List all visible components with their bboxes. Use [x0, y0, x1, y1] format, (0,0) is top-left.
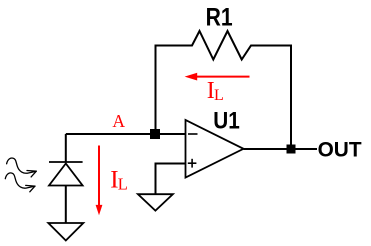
- svg-text:U1: U1: [213, 108, 240, 135]
- svg-text:R1: R1: [206, 4, 233, 32]
- svg-text:A: A: [112, 111, 125, 131]
- svg-text:OUT: OUT: [318, 138, 362, 162]
- svg-text:L: L: [214, 87, 224, 104]
- svg-text:L: L: [118, 175, 128, 194]
